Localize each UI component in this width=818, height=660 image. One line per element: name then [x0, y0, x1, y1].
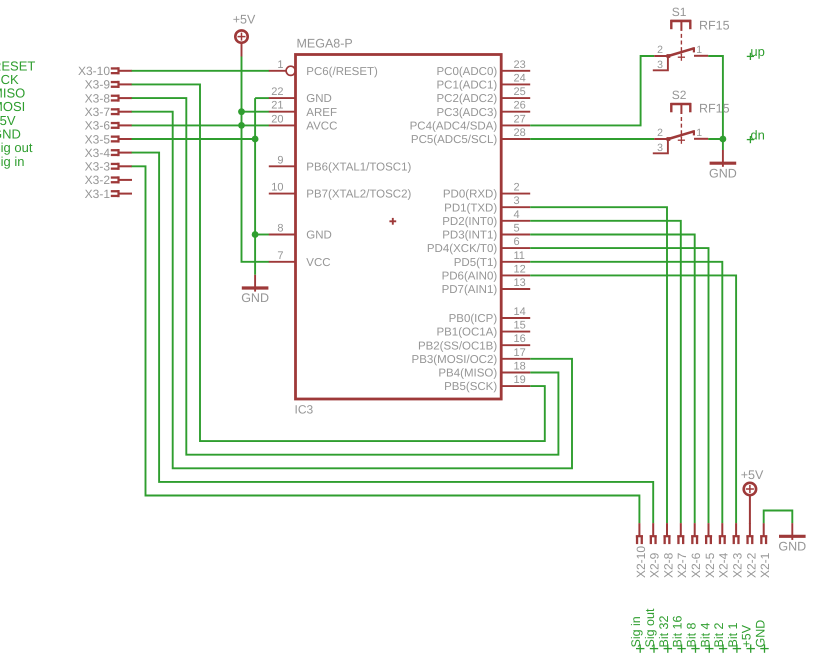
IC pin 6 lead [501, 247, 530, 249]
svg-text:GND: GND [778, 540, 806, 554]
connector pin X2-6 [691, 523, 698, 544]
connector pin X2-9 [650, 523, 657, 544]
op-amp/IC U: MEGA8-P body IC3 [296, 55, 502, 400]
S2 hinge dot [667, 137, 671, 141]
pushbutton S1 actuator [670, 20, 691, 31]
net label origin Sig in [636, 644, 644, 652]
svg-text:PD2(INT0): PD2(INT0) [442, 216, 497, 228]
svg-text:Bit 8: Bit 8 [685, 622, 699, 647]
junction +5V/AREF [238, 108, 245, 115]
svg-text:Bit 4: Bit 4 [698, 622, 712, 647]
svg-text:RF15: RF15 [699, 101, 730, 115]
svg-text:2: 2 [657, 127, 663, 139]
svg-text:PB3(MOSI/OC2): PB3(MOSI/OC2) [412, 354, 498, 366]
svg-text:X3-5: X3-5 [85, 132, 111, 146]
svg-text:GND: GND [306, 93, 332, 105]
S2 contact arm [668, 130, 694, 139]
wire PC5 to switch S2 pin 2 [530, 138, 654, 140]
wire dn: S2 pin 1 to ground [708, 139, 723, 150]
svg-text:+5V: +5V [740, 624, 754, 647]
svg-text:X2-4: X2-4 [717, 552, 731, 578]
svg-text:PB0(ICP): PB0(ICP) [449, 313, 498, 325]
svg-text:15: 15 [514, 320, 526, 332]
wire GND: X3-5 to GND rail [132, 138, 256, 140]
svg-text:+5V: +5V [741, 468, 764, 482]
svg-text:X2-2: X2-2 [744, 552, 758, 578]
svg-text:PB6(XTAL1/TOSC1): PB6(XTAL1/TOSC1) [306, 161, 411, 173]
wire PD2 to X2-7 Bit 16 [530, 221, 681, 523]
connector pin X3-1 [111, 190, 132, 197]
svg-text:X2-10: X2-10 [634, 546, 648, 578]
svg-text:1: 1 [696, 127, 702, 139]
svg-text:26: 26 [514, 100, 526, 112]
svg-text:PC5(ADC5/SCL): PC5(ADC5/SCL) [411, 134, 497, 146]
svg-text:17: 17 [514, 347, 526, 359]
svg-text:20: 20 [271, 113, 283, 125]
svg-text:14: 14 [514, 306, 526, 318]
svg-text:PC6(/RESET): PC6(/RESET) [306, 66, 378, 78]
svg-text:Bit 2: Bit 2 [712, 622, 726, 647]
wire PD1 to X2-8 Bit 32 [530, 207, 667, 523]
+5V supply lead (bottom) [749, 496, 751, 524]
wire +5V: X3-6 to IC pin 20 AVCC [132, 124, 270, 126]
connector pin X2-7 [677, 523, 684, 544]
IC pin 14 lead [501, 317, 530, 319]
svg-text:Bit 1: Bit 1 [726, 622, 740, 647]
ground (below S2) [709, 150, 737, 180]
svg-text:PD6(AIN0): PD6(AIN0) [442, 271, 498, 283]
wire Sig out: X3-4 to X2-9 [132, 153, 654, 523]
net label origin Bit 32 [664, 644, 672, 652]
svg-text:X3-10: X3-10 [78, 64, 110, 78]
svg-text:PD5(T1): PD5(T1) [454, 257, 498, 269]
connector pin X2-3 [733, 523, 740, 544]
svg-text:X3-6: X3-6 [85, 119, 111, 133]
S2 pin 3 lead [653, 140, 668, 153]
svg-text:X2-3: X2-3 [731, 552, 745, 578]
pushbutton S2 actuator [670, 103, 691, 114]
connector pin X3-6 [111, 122, 132, 129]
svg-text:3: 3 [514, 195, 520, 207]
svg-text:X2-5: X2-5 [703, 552, 717, 578]
S1 pin 2 lead [654, 55, 667, 57]
svg-text:X2-8: X2-8 [661, 552, 675, 578]
IC pin 25 lead [501, 97, 530, 99]
svg-text:8: 8 [277, 223, 283, 235]
svg-text:X3-7: X3-7 [85, 105, 111, 119]
svg-text:S1: S1 [672, 5, 687, 19]
svg-text:dn: dn [750, 127, 764, 142]
net label origin Bit 8 [691, 644, 699, 652]
wire PD5 to X2-4 Bit 2 [530, 262, 722, 523]
svg-text:11: 11 [514, 250, 525, 262]
S2 pin 1 contact [694, 138, 708, 140]
svg-text:10: 10 [271, 182, 283, 194]
wire PD6 to X2-3 Bit 1 [530, 275, 736, 523]
IC pin 4 lead [501, 220, 530, 222]
IC pin 1 lead [269, 70, 286, 72]
svg-text:X3-4: X3-4 [85, 146, 111, 160]
S1 pin 3 lead [653, 57, 668, 70]
svg-text:Sig out: Sig out [643, 608, 657, 647]
svg-text:AVCC: AVCC [306, 121, 337, 133]
S1 pin 1 contact [694, 55, 708, 57]
connector pin X3-9 [111, 81, 132, 88]
+5V supply lead (top) [241, 43, 243, 56]
svg-text:28: 28 [514, 127, 526, 139]
IC pin 22 lead [269, 97, 296, 99]
net label origin Sig out [650, 644, 658, 652]
svg-text:IC3: IC3 [295, 403, 314, 417]
svg-text:9: 9 [277, 154, 283, 166]
svg-text:4: 4 [514, 209, 520, 221]
IC pin 12 lead [501, 274, 530, 276]
svg-text:19: 19 [514, 374, 526, 386]
connector pin X2-1 [760, 523, 767, 544]
svg-text:PC0(ADC0): PC0(ADC0) [436, 66, 497, 78]
svg-text:PD0(RXD): PD0(RXD) [443, 189, 497, 201]
svg-text:1: 1 [277, 59, 283, 71]
svg-text:X3-8: X3-8 [85, 91, 111, 105]
S2 pin 2 lead [654, 138, 667, 140]
IC pin 19 lead [501, 385, 530, 387]
IC pin 17 lead [501, 358, 530, 360]
IC pin 7 lead [269, 261, 296, 263]
svg-text:X3-1: X3-1 [85, 187, 111, 201]
svg-text:AREF: AREF [306, 107, 337, 119]
+5V supply symbol (bottom) [744, 483, 756, 495]
S2 origin mark [678, 137, 685, 144]
junction GND/pin8 [252, 231, 259, 238]
net label origin up [747, 53, 754, 60]
connector pin X3-10 [111, 67, 132, 74]
svg-text:PB2(SS/OC1B): PB2(SS/OC1B) [418, 340, 497, 352]
S1 dashed actuator link [680, 34, 682, 55]
svg-text:21: 21 [271, 100, 283, 112]
wire MISO: X3-8 to IC pin 18 [132, 98, 559, 455]
wire SCK: X3-9 to IC pin 19 [132, 84, 545, 441]
svg-text:MEGA8-P: MEGA8-P [297, 37, 353, 51]
svg-text:25: 25 [514, 86, 526, 98]
S1 contact arm [668, 47, 694, 56]
svg-text:6: 6 [514, 236, 520, 248]
svg-text:PB4(MISO): PB4(MISO) [438, 368, 497, 380]
wire X2-1 to ground [764, 511, 793, 524]
IC pin 1 inversion bubble [286, 66, 295, 75]
wire RESET: X3-10 to IC pin 1 [132, 70, 270, 72]
IC pin 18 lead [501, 372, 530, 374]
IC pin 5 lead [501, 234, 530, 236]
+5V supply symbol (top) [235, 30, 247, 42]
net label origin Bit 4 [705, 644, 713, 652]
ground (below IC) [241, 275, 269, 305]
wire PD4 to X2-5 Bit 4 [530, 248, 708, 523]
IC pin 10 lead [269, 193, 296, 195]
connector pin X3-5 [111, 135, 132, 142]
wire MOSI: X3-7 to IC pin 17 [132, 112, 572, 469]
svg-text:GND: GND [754, 620, 768, 648]
connector pin X2-10 [636, 523, 643, 544]
wire PD3 to X2-6 Bit 8 [530, 235, 695, 524]
svg-text:PB1(OC1A): PB1(OC1A) [436, 327, 497, 339]
svg-text:PC2(ADC2): PC2(ADC2) [436, 93, 497, 105]
svg-text:Sig in: Sig in [0, 154, 25, 169]
svg-text:up: up [750, 44, 764, 59]
net label origin Bit 2 [719, 644, 727, 652]
svg-text:12: 12 [514, 263, 526, 275]
wire GND rail to IC pin 8 [255, 234, 269, 236]
IC pin 28 lead [501, 138, 530, 140]
wire PC4 to switch S1 pin 2 [530, 56, 654, 125]
ground (bottom right) [778, 523, 806, 553]
connector pin X2-2 [746, 523, 753, 544]
svg-text:Bit 16: Bit 16 [671, 615, 685, 647]
net label origin Bit 16 [677, 644, 685, 652]
connector pin X3-2 [111, 176, 132, 183]
svg-text:PD4(XCK/T0): PD4(XCK/T0) [427, 243, 497, 255]
IC pin 13 lead [501, 288, 530, 290]
svg-text:3: 3 [657, 59, 663, 71]
svg-text:VCC: VCC [306, 257, 330, 269]
wire GND rail to IC pin 22 [255, 97, 269, 99]
IC pin 2 lead [501, 193, 530, 195]
IC pin 20 lead [269, 124, 296, 126]
svg-text:PB5(SCK): PB5(SCK) [444, 381, 497, 393]
svg-text:S2: S2 [672, 88, 687, 102]
svg-text:18: 18 [514, 361, 526, 373]
IC origin mark [389, 218, 396, 225]
wire +5V rail down to IC pin 7 VCC [242, 57, 270, 262]
S1 origin mark [678, 54, 685, 61]
IC pin 8 lead [269, 234, 296, 236]
wire GND rail vertical [254, 98, 256, 275]
connector pin X3-7 [111, 108, 132, 115]
svg-text:PD3(INT1): PD3(INT1) [442, 230, 497, 242]
svg-text:PC3(ADC3): PC3(ADC3) [436, 107, 497, 119]
svg-text:X3-9: X3-9 [85, 78, 111, 92]
svg-text:27: 27 [514, 113, 526, 125]
IC pin 21 lead [269, 111, 296, 113]
IC pin 24 lead [501, 83, 530, 85]
svg-text:PB7(XTAL2/TOSC2): PB7(XTAL2/TOSC2) [306, 189, 411, 201]
svg-text:X2-7: X2-7 [675, 552, 689, 578]
S2 dashed actuator link [680, 117, 682, 138]
IC pin 11 lead [501, 261, 530, 263]
net label origin dn [747, 136, 754, 143]
IC pin 15 lead [501, 331, 530, 333]
net label origin +5V [747, 644, 755, 652]
svg-text:GND: GND [709, 166, 737, 180]
svg-text:GND: GND [306, 230, 332, 242]
wire Sig in: X3-3 to X2-10 [132, 166, 640, 523]
svg-text:RF15: RF15 [699, 18, 730, 32]
IC pin 27 lead [501, 124, 530, 126]
svg-text:Sig in: Sig in [629, 616, 643, 647]
svg-text:3: 3 [657, 142, 663, 154]
svg-text:PC1(ADC1): PC1(ADC1) [436, 80, 497, 92]
svg-text:X2-6: X2-6 [689, 552, 703, 578]
connector pin X2-8 [663, 523, 670, 544]
connector pin X2-4 [719, 523, 726, 544]
svg-text:PD1(TXD): PD1(TXD) [444, 202, 497, 214]
svg-text:X3-3: X3-3 [85, 160, 111, 174]
svg-text:Bit 32: Bit 32 [657, 615, 671, 647]
wire +5V rail to IC pin 21 AREF [242, 111, 270, 113]
connector pin X3-4 [111, 149, 132, 156]
junction +5V/AVCC [238, 122, 245, 129]
wire up: S1 pin 1 down to S2 pin 1 [708, 56, 723, 139]
svg-text:+5V: +5V [233, 13, 256, 27]
IC pin 3 lead [501, 206, 530, 208]
svg-text:PD7(AIN1): PD7(AIN1) [442, 284, 498, 296]
svg-text:13: 13 [514, 277, 526, 289]
IC pin 26 lead [501, 111, 530, 113]
svg-text:X2-9: X2-9 [648, 552, 662, 578]
svg-text:X3-2: X3-2 [85, 173, 111, 187]
connector pin X3-3 [111, 163, 132, 170]
net label origin GND [760, 644, 768, 652]
svg-text:22: 22 [271, 86, 283, 98]
svg-text:2: 2 [514, 182, 520, 194]
svg-text:2: 2 [657, 44, 663, 56]
S1 hinge dot [667, 54, 671, 58]
svg-text:23: 23 [514, 59, 526, 71]
svg-text:24: 24 [514, 72, 526, 84]
connector pin X3-8 [111, 95, 132, 102]
svg-text:PC4(ADC4/SDA): PC4(ADC4/SDA) [410, 121, 498, 133]
connector pin X2-5 [705, 523, 712, 544]
svg-text:GND: GND [241, 291, 269, 305]
svg-text:X2-1: X2-1 [758, 552, 772, 578]
IC pin 16 lead [501, 344, 530, 346]
IC pin 23 lead [501, 70, 530, 72]
IC pin 9 lead [269, 165, 296, 167]
junction dn/GND [720, 136, 727, 143]
svg-text:16: 16 [514, 333, 526, 345]
svg-text:7: 7 [277, 250, 283, 262]
svg-text:5: 5 [514, 223, 520, 235]
net label origin Bit 1 [733, 644, 741, 652]
svg-text:1: 1 [696, 44, 702, 56]
junction GND/X3-5 [252, 136, 259, 143]
